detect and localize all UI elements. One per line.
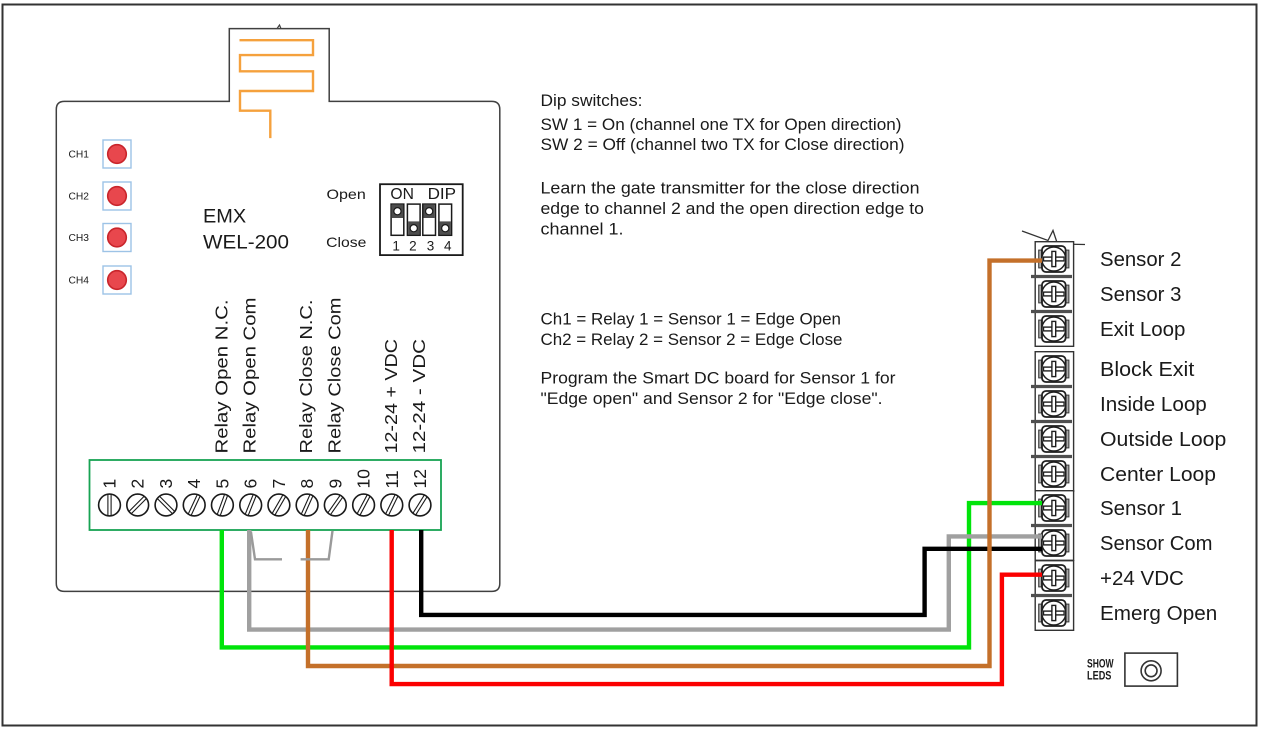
svg-text:6: 6 [241,479,261,489]
svg-text:EMX: EMX [203,206,246,228]
terminal 10 screw [353,494,375,516]
DIP switch ON DIP heading [390,186,456,203]
wire red: 12-24 + VDC (term 11) to +24 VDC [392,530,1042,684]
svg-text:+24 VDC: +24 VDC [1100,568,1184,590]
gray jumper (relay com loop) right hook [301,531,333,560]
svg-text:Relay Open Com: Relay Open Com [240,298,260,454]
terminal separator bar [1031,594,1072,597]
DIP switch slider 2 (OFF) [407,204,420,235]
terminal 6 screw [240,494,262,516]
DIP switch slider 3 (ON) [423,204,436,235]
svg-text:Open: Open [327,186,366,202]
wire green: Relay Open N.C. (term 5) to Sensor 1 [222,503,1042,647]
LED CH4 [103,266,131,294]
terminal 1 screw [99,494,121,516]
svg-text:Close: Close [326,234,366,250]
terminal separator bar [1031,385,1072,388]
terminal separator bar [1031,420,1072,423]
svg-text:Sensor 2: Sensor 2 [1100,249,1181,271]
svg-text:Sensor Com: Sensor Com [1100,533,1213,555]
terminal separator bar [1031,275,1072,278]
svg-text:Relay Close N.C.: Relay Close N.C. [296,300,316,454]
terminal block group 4 frame [1035,561,1073,631]
svg-text:DIP: DIP [428,186,457,203]
antenna tip mark [277,25,281,29]
svg-text:Block Exit: Block Exit [1100,359,1195,381]
terminal block group 1 frame [1035,242,1073,347]
terminal screw: Center Loop [1039,461,1069,487]
terminal screw: Emerg Open [1039,600,1069,626]
svg-text:CH1: CH1 [69,149,90,161]
svg-text:Learn the gate transmitter for: Learn the gate transmitter for the close… [541,180,920,198]
terminal separator bar [1031,310,1072,313]
terminal 3 screw [155,494,177,516]
svg-text:edge to channel 2 and the open: edge to channel 2 and the open direction… [541,200,925,218]
terminal strip (12-position) outline [90,460,442,530]
wire orange: Relay Close N.C. (term 8) to Sensor 2 [308,261,1042,666]
antenna (orange zig-zag) [240,40,314,138]
svg-text:12-24 + VDC: 12-24 + VDC [381,339,401,454]
svg-text:Exit Loop: Exit Loop [1100,319,1185,341]
svg-text:Outside Loop: Outside Loop [1100,429,1226,451]
DIP switch slider 1 (ON) [391,204,404,235]
terminal screw: Sensor Com [1039,530,1069,556]
svg-text:Center Loop: Center Loop [1100,464,1216,486]
terminal screw: Outside Loop [1039,426,1069,452]
svg-text:3: 3 [427,239,435,254]
LED CH3 [103,224,131,252]
LED CH1 [103,140,131,168]
svg-text:Inside Loop: Inside Loop [1100,394,1207,416]
DIP switch S1 outline [380,184,463,255]
svg-text:SHOW: SHOW [1087,658,1114,670]
svg-text:Relay Close Com: Relay Close Com [324,298,344,454]
terminal 8 screw [296,494,318,516]
DIP switch position numbers 1 2 3 4 [392,239,452,254]
svg-text:ON: ON [390,186,414,203]
terminal 4 screw [183,494,205,516]
svg-text:3: 3 [156,479,176,489]
terminal separator bar [1031,455,1072,458]
svg-text:SW 2 = Off (channel two TX for: SW 2 = Off (channel two TX for Close dir… [541,136,905,154]
wire gray: Relay Open Com (term 6) to Sensor Com [249,530,1042,630]
svg-text:CH4: CH4 [69,275,90,287]
terminal screw: Inside Loop [1039,391,1069,417]
svg-text:4: 4 [184,479,204,489]
svg-text:5: 5 [212,479,232,489]
svg-text:SW 1 = On (channel one TX for: SW 1 = On (channel one TX for Open direc… [541,116,902,134]
receiver WEL-200 body outline [56,29,500,592]
svg-text:1: 1 [100,479,120,489]
svg-text:Relay Open N.C.: Relay Open N.C. [211,300,231,454]
svg-text:Ch1 = Relay 1 = Sensor 1 = Edg: Ch1 = Relay 1 = Sensor 1 = Edge Open [541,310,842,328]
svg-text:CH3: CH3 [69,232,90,244]
svg-text:"Edge open" and Sensor 2 for ": "Edge open" and Sensor 2 for "Edge close… [541,390,883,408]
svg-text:2: 2 [409,239,417,254]
terminal 2 screw [127,494,149,516]
terminal 5 screw [212,494,234,516]
terminal block group 2 frame [1035,352,1073,492]
terminal block group 3 frame [1035,491,1073,561]
terminal screw: Sensor 1 [1039,495,1069,521]
DIP switch slider 4 (OFF) [439,204,452,235]
wire black: 12-24 - VDC (term 12) to Sensor Com [421,530,1042,615]
SHOW LEDS label [1087,658,1114,682]
svg-text:Sensor 3: Sensor 3 [1100,284,1181,306]
svg-text:LEDS: LEDS [1087,670,1112,682]
sensor terminal block continuation mark (top squiggle) [1022,231,1085,245]
SHOW LEDS button [1125,653,1178,686]
svg-text:CH2: CH2 [69,191,90,203]
svg-text:7: 7 [269,479,289,489]
svg-text:Emerg Open: Emerg Open [1100,603,1217,625]
svg-text:WEL-200: WEL-200 [203,231,289,253]
terminal 7 screw [268,494,290,516]
terminal screw: Exit Loop [1039,316,1069,342]
terminal screw: +24 VDC [1039,565,1069,591]
svg-text:8: 8 [297,479,317,489]
terminal 11 screw [381,494,403,516]
svg-text:Dip switches:: Dip switches: [541,92,643,110]
svg-text:12: 12 [410,469,430,488]
terminal 9 screw [324,494,346,516]
svg-text:9: 9 [325,479,345,489]
svg-text:11: 11 [382,470,402,488]
svg-text:10: 10 [354,469,374,489]
svg-text:Sensor 1: Sensor 1 [1100,498,1182,520]
svg-text:1: 1 [392,239,400,254]
svg-text:12-24 - VDC: 12-24 - VDC [409,339,429,454]
LED CH2 [103,182,131,210]
label EMX WEL-200 [203,206,289,254]
svg-text:channel 1.: channel 1. [541,220,624,238]
instruction text block [541,92,925,408]
gray jumper (relay com loop) left hook [251,532,282,560]
terminal screw: Sensor 2 [1039,246,1069,272]
svg-text:4: 4 [444,239,452,254]
svg-text:Program the Smart DC board for: Program the Smart DC board for Sensor 1 … [541,369,897,387]
terminal separator bar [1031,524,1072,527]
svg-text:2: 2 [128,479,148,489]
terminal screw: Block Exit [1039,356,1069,382]
terminal 12 screw [409,494,431,516]
svg-text:Ch2 = Relay 2 = Sensor 2 = Edg: Ch2 = Relay 2 = Sensor 2 = Edge Close [541,331,843,349]
terminal screw: Sensor 3 [1039,281,1069,307]
